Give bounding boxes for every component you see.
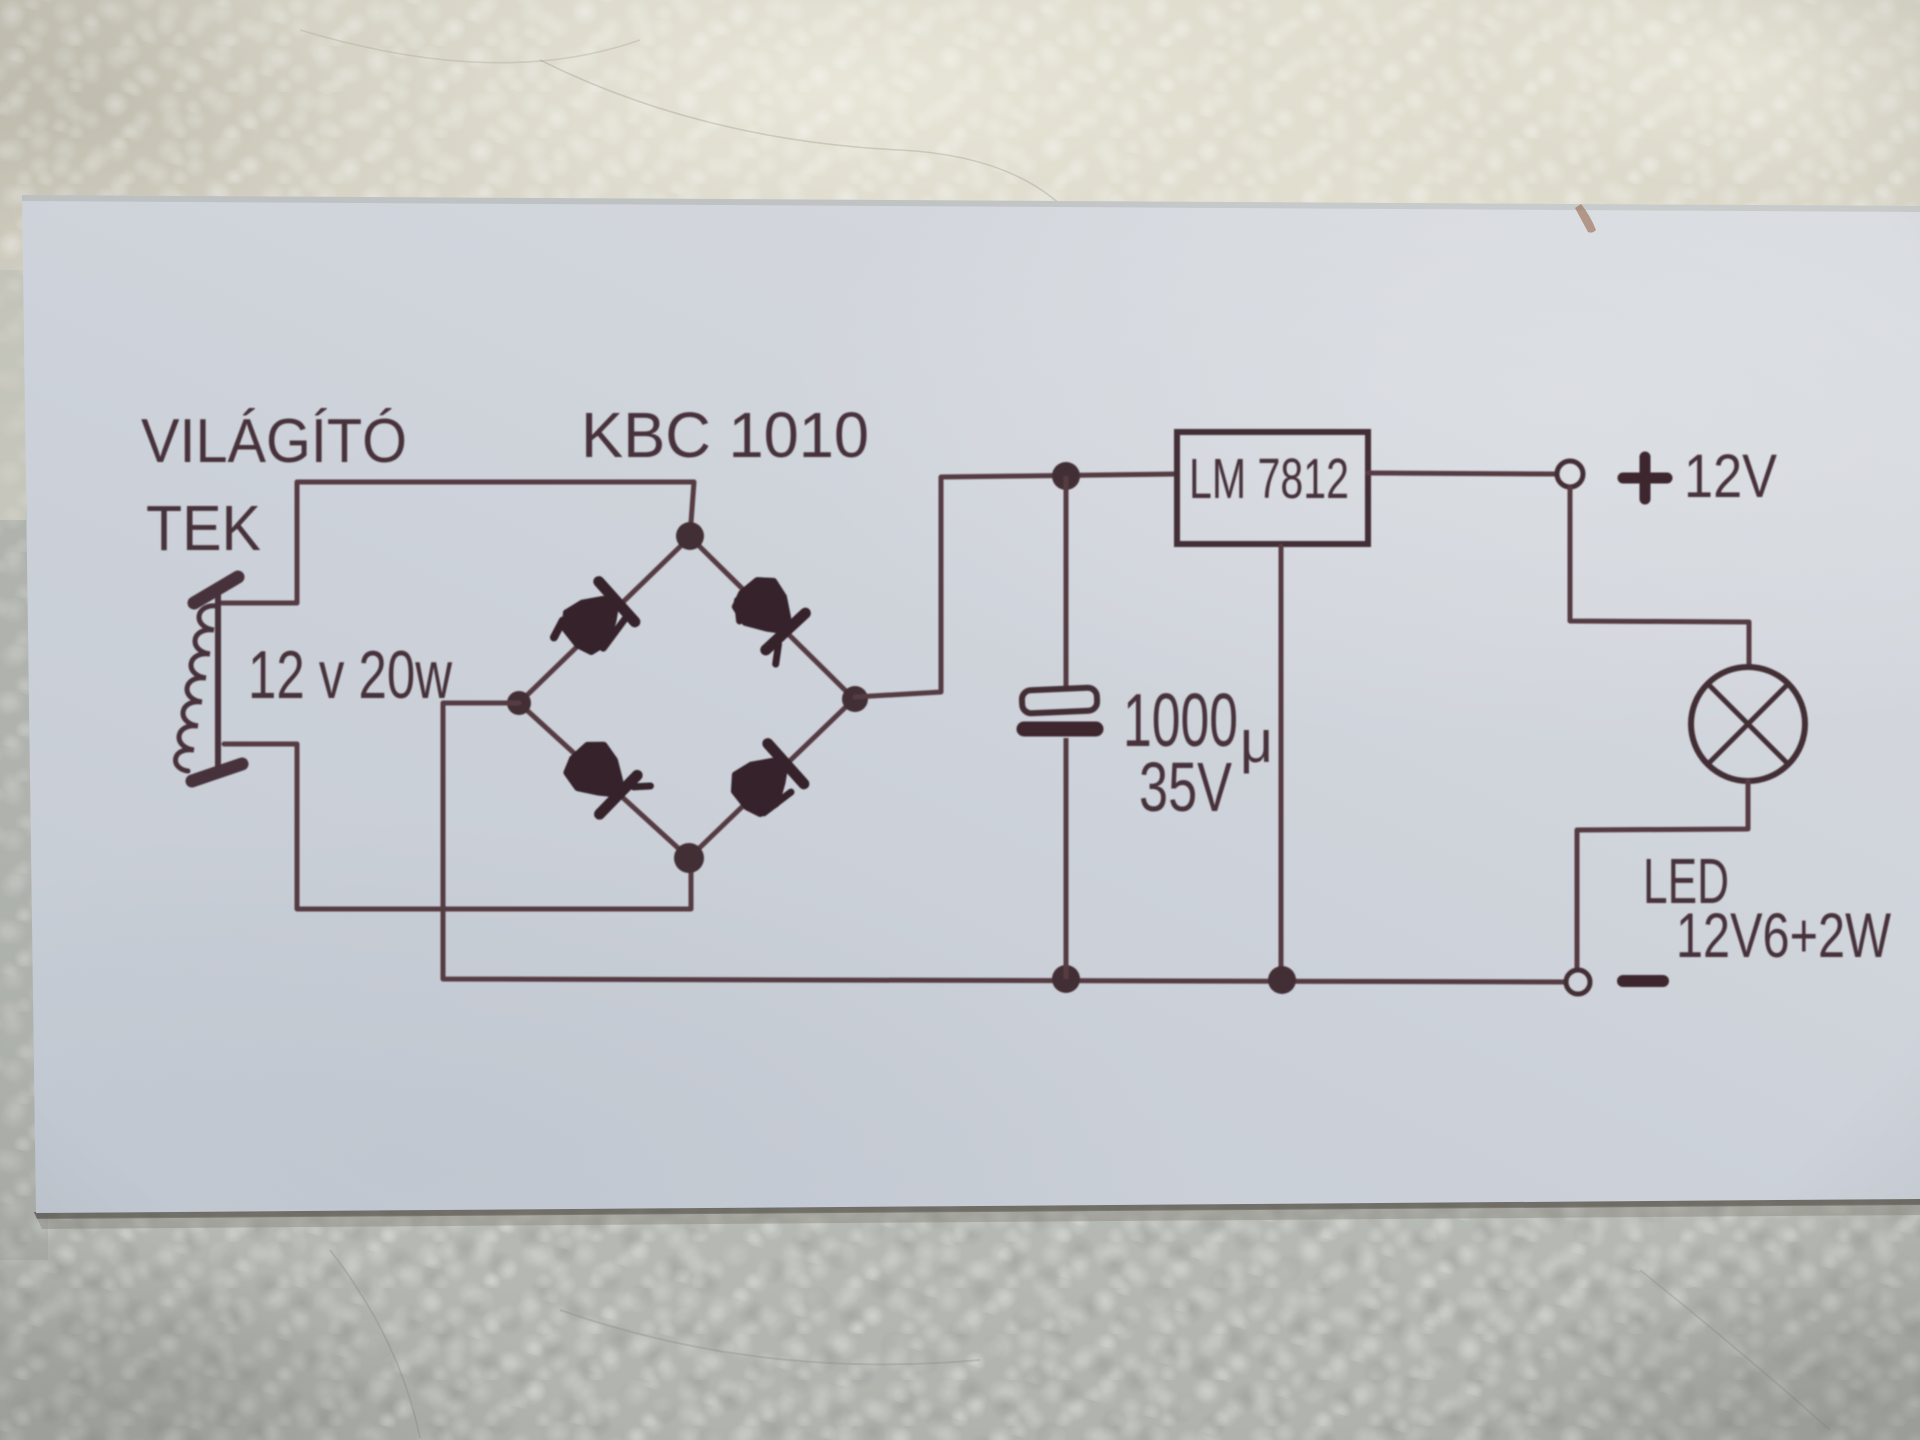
capacitor C1 1000u/35V: [1022, 476, 1098, 979]
wire regulator ground pin: [1279, 546, 1284, 979]
terminal plus output: [1557, 461, 1583, 487]
node capacitor bottom: [1052, 965, 1080, 993]
diode D1 upper-left: [548, 582, 637, 670]
diode bridge diamond frame KBC1010: [519, 537, 854, 858]
diode D4 lower-right: [725, 744, 805, 824]
label + 12V: [1623, 442, 1777, 510]
wire left vertex down to ground rail across to minus terminal: [443, 703, 1565, 982]
wire lamp bottom to minus terminal: [1577, 781, 1748, 969]
background towel upper warm band: [0, 0, 1920, 270]
regulator U1 LM7812 box: [1177, 432, 1368, 544]
node capacitor top: [1052, 462, 1080, 490]
node bridge top vertex: [676, 522, 704, 550]
wire transformer bottom to bridge bottom: [224, 744, 691, 909]
paper shadow: [34, 1198, 1920, 1219]
paper sheet: [22, 195, 1920, 1213]
diode D2 upper-right: [723, 571, 816, 664]
stain mark on paper top edge: [1575, 204, 1596, 233]
diode D3 lower-left: [557, 735, 650, 827]
node regulator ground: [1268, 966, 1296, 994]
wire transformer top to bridge top: [222, 482, 694, 603]
wire bridge right vertex up to top rail into regulator: [855, 474, 1177, 697]
label minus sign: [1623, 975, 1663, 987]
lamp (circle with X): [1691, 667, 1805, 781]
node bridge left vertex: [507, 691, 531, 715]
node bridge bottom vertex: [674, 843, 704, 873]
terminal minus output: [1566, 970, 1590, 994]
node bridge right vertex: [842, 686, 868, 712]
transformer secondary coil TEK: [176, 577, 242, 781]
wire regulator output to plus terminal: [1368, 473, 1556, 474]
wire plus terminal down and over to lamp: [1570, 488, 1749, 667]
